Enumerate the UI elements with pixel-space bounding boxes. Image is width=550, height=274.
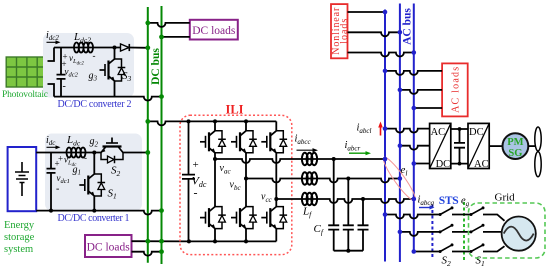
svg-text:DC: DC [436,159,451,170]
DC/DC converter 1 background [45,134,142,212]
svg-text:vbc: vbc [230,180,242,193]
svg-text:AC: AC [474,159,489,170]
DC loads box bottom [85,235,132,257]
inductor L_f phase c [300,198,319,200]
svg-text:-: - [194,186,198,200]
top rail junction dots [187,119,191,123]
wire converter 2 top rail [54,47,121,49]
AC loads box [442,63,468,116]
svg-text:eg: eg [461,196,470,209]
wire AC line2 to AC/DC, dip over line3 [400,146,430,150]
STS wire row 3 from line3 [414,251,440,253]
inverter leg c vertical [275,121,277,241]
phase c output wire with dips [276,199,414,203]
Grid dashed box [469,203,546,258]
AC bus line 1 [384,10,386,262]
wire PV bottom to converter 2 [48,84,55,97]
ILI inverter dashed box [180,115,292,254]
svg-text:loads: loads [339,19,350,44]
svg-text:DC loads: DC loads [192,25,236,37]
wire converter 1 top rail [36,152,100,154]
DC bus line 1 (positive) [147,7,149,263]
wire AC line1 to AC/DC, dips over line2 line3 [385,129,430,133]
node after L_dc [92,151,96,155]
AC bus line 2 [399,4,401,263]
capacitor neutral join [334,250,363,252]
node S3 collector on converter 2 rail [113,46,117,50]
svg-text:AC: AC [431,127,446,138]
wire bottom DC loads to inverter bottom rail [132,240,189,242]
phase a output wire with dips over legs b,c [215,159,385,163]
IGBT leg c top [261,130,287,154]
svg-text:STS: STS [439,195,459,207]
switch S2 row3 [440,245,452,252]
svg-text:DC loads: DC loads [87,242,131,254]
svg-text:S1: S1 [476,255,485,269]
wire AC line2 to AC loads, dip over line3 [400,90,442,94]
battery symbol [15,162,29,196]
svg-text:system: system [4,244,33,255]
IGBT leg c bottom [261,206,287,230]
DC link wires between converters [451,128,468,130]
switch S2 row2 [440,225,452,232]
wire S2 to DC bus [124,152,148,154]
transistor S2 (horizontal) [100,138,124,164]
transistor S3 [100,58,126,82]
svg-text:storage: storage [4,232,35,243]
inverter leg b vertical [245,121,247,241]
svg-text:Photovoltaic: Photovoltaic [2,90,48,100]
wire PV top to converter 2 [48,48,55,62]
AC bus line 3 [413,4,415,252]
capacitor v_dc2 [57,48,66,97]
transistor S1 leg [93,153,95,211]
STS green dashed boundary [463,202,465,261]
phase b output wire with dips [246,179,400,183]
inductor L_f phase a [300,158,319,160]
svg-text:DC: DC [469,127,484,138]
svg-text:iabcl: iabcl [357,123,372,136]
wire AC line1 to AC loads, dips over line2 line3 [385,71,442,75]
svg-text:iabcc: iabcc [295,134,312,147]
bottom rail junction dots [187,239,191,243]
svg-text:DC bus: DC bus [150,48,162,85]
wire AC line3 to AC/DC [414,163,430,165]
svg-text:AC loads: AC loads [450,67,461,113]
IGBT leg b bottom [231,206,257,230]
svg-text:Cf: Cf [314,223,324,237]
switch S1 row2 [471,225,483,232]
capacitor v_dc1 [47,153,56,211]
node S1 bottom [92,209,96,213]
filter capacitor drop b [343,179,354,251]
wire nonlinear row 1 to AC line1 [348,11,386,13]
Grid AC source [502,217,536,251]
svg-text:Grid: Grid [495,192,516,204]
svg-text:SG: SG [508,148,522,159]
filter capacitor drop c [358,199,369,251]
svg-text:-: - [56,184,59,195]
DC loads box top [190,20,238,40]
DC/DC converter 2 background [43,33,134,98]
energy storage system box [8,147,37,211]
STS wire row 1 from line1, dips over line2 line3 [385,215,440,219]
wind turbine blade bottom [535,152,541,177]
wire AC line3 to AC loads [414,107,442,109]
DC link capacitor [454,129,465,164]
wire DC line2 to top DC loads [162,36,190,38]
svg-text:Lf: Lf [302,206,312,220]
transistor S3 leg [114,48,116,97]
diode D2 (boost) [121,44,130,51]
svg-text:-: - [84,153,87,163]
inductor L_f phase b [300,178,319,180]
STS wire row 2 from line2, dip over line3 [400,232,440,236]
svg-text:vac: vac [220,163,232,176]
svg-text:AC bus: AC bus [401,8,413,45]
AC bus junction dots [383,10,416,254]
wire nonlinear row 2, dip over line1, to line2 [348,32,400,36]
switch S1 row1 [471,208,483,215]
wire diode to DC bus [129,47,148,49]
svg-text:iabcr: iabcr [345,140,361,153]
svg-text:DC/DC converter 1: DC/DC converter 1 [58,213,130,224]
wire converter 2 bottom rail to DC bus line2, dip over line1 [54,97,162,101]
svg-text:-: - [93,51,96,61]
svg-text:vcc: vcc [261,192,273,205]
DC bus line 2 (negative) [161,6,163,264]
node capacitor bottom [49,209,53,213]
wire DC line1 to inverter top rail, dip over line2 [148,121,276,125]
photovoltaic panel [6,57,47,87]
svg-text:DC/DC converter 2: DC/DC converter 2 [58,99,132,110]
DC bus junction dots [145,21,164,255]
filter capacitor drop a [328,159,339,251]
svg-text:PM: PM [507,137,523,148]
wire DC line1 to top DC loads, dip over line2 [148,23,190,27]
capacitor V_dc [182,121,195,241]
switch S1 row3 [471,245,483,252]
transistor S1 [79,173,105,197]
inverter leg a vertical [214,121,216,241]
wind turbine shaft [528,145,535,147]
svg-text:el: el [401,164,408,178]
DC/AC converter box [468,123,489,168]
svg-text:+: + [193,159,199,171]
svg-text:-: - [63,81,66,92]
inductor L_dc [67,148,86,158]
STS blue dashed boundary [431,205,433,260]
wind turbine blade top [535,127,541,151]
svg-text:ILI: ILI [225,103,243,117]
svg-text:Energy: Energy [4,220,35,231]
IGBT leg a bottom [200,206,226,230]
svg-text:S2: S2 [442,255,452,269]
IGBT leg b top [231,130,257,154]
wire nonlinear row 3, dips over line1 line2, to line3 [348,53,414,57]
AC/DC converter box [430,123,451,168]
IGBT leg a top [200,130,226,154]
svg-text:+: + [55,159,60,169]
svg-text:idc2: idc2 [46,30,59,42]
PMSG generator [503,133,529,159]
svg-text:iabcg: iabcg [418,195,435,208]
inductor L_dc2 [74,43,93,53]
wire converter 1 bottom rail, dip over DC line1, to line2 [36,211,161,215]
inverter bottom rail [189,240,276,242]
wire DC/AC to PMSG [489,145,502,147]
wire bottom DC loads lower, dip over line1, to line2 [132,252,162,256]
switch S2 row1 [440,208,452,215]
Nonlinear loads box [331,4,348,58]
